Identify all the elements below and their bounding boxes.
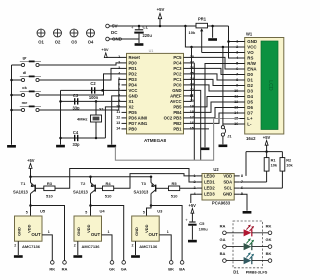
svg-text:ok: ok xyxy=(22,85,27,90)
connector RA xyxy=(62,261,68,272)
svg-text:8: 8 xyxy=(241,174,243,178)
W1 pin 14 D7 xyxy=(234,111,253,116)
W1 pin 9 D2 xyxy=(236,83,253,88)
wire MCU GND pin8 xyxy=(112,96,122,145)
svg-text:1: 1 xyxy=(48,230,50,234)
U2 pin 6 SCL xyxy=(224,186,243,191)
wire SCL row xyxy=(240,187,283,189)
svg-text:SA1013: SA1013 xyxy=(13,189,29,194)
svg-text:RA: RA xyxy=(220,223,226,228)
svg-text:10k: 10k xyxy=(286,162,293,167)
wire S1 to PD0 xyxy=(39,63,121,65)
wire S4 to PD3 xyxy=(39,79,121,110)
wire collector to U3 VDD xyxy=(147,206,152,217)
svg-text:100n: 100n xyxy=(89,95,99,100)
svg-text:R5: R5 xyxy=(172,181,178,186)
switch S4 me xyxy=(12,100,42,111)
svg-text:L+: L+ xyxy=(247,116,253,121)
U2 pin 2 LED1 xyxy=(193,180,215,185)
wire collector to GA xyxy=(91,206,124,261)
mounting hole O3 xyxy=(70,29,78,45)
svg-text:BA: BA xyxy=(220,251,226,256)
svg-text:BA: BA xyxy=(179,266,185,271)
svg-text:GA: GA xyxy=(220,237,226,242)
U1 pin 27 PC4 xyxy=(173,60,194,65)
wire PC1 to D2 xyxy=(189,79,240,85)
svg-text:AVCC: AVCC xyxy=(170,99,182,104)
wire R4 to U2 LED0 xyxy=(114,174,197,189)
svg-text:GND: GND xyxy=(76,227,81,236)
svg-text:5: 5 xyxy=(143,211,145,215)
node bus junction S3 xyxy=(10,94,13,97)
U1 pin 3 PD1 xyxy=(118,66,137,71)
U1 pin 25 PC2 xyxy=(173,71,194,76)
svg-text:U3: U3 xyxy=(157,208,163,213)
wire L+ backlight path xyxy=(115,119,239,161)
W1 pin 6 ENA xyxy=(236,67,257,72)
svg-text:PD7 AIN1: PD7 AIN1 xyxy=(129,121,148,126)
svg-text:1: 1 xyxy=(167,230,169,234)
svg-text:VCC: VCC xyxy=(129,88,138,93)
W1 pin 12 D5 xyxy=(234,100,253,105)
connector BA xyxy=(179,261,185,272)
svg-text:1: 1 xyxy=(108,230,110,234)
potentiometer PR1 10k xyxy=(189,16,208,52)
svg-text:C3: C3 xyxy=(73,93,79,98)
mounting hole O2 xyxy=(54,29,62,45)
svg-text:33p: 33p xyxy=(72,142,80,147)
ground U5 xyxy=(14,255,23,258)
wire U5 OUT to RK xyxy=(42,230,52,261)
svg-text:BK: BK xyxy=(266,251,272,256)
svg-text:PD6 AIN0: PD6 AIN0 xyxy=(129,115,148,120)
wire U5 GND pin xyxy=(14,241,18,255)
svg-text:+5V: +5V xyxy=(101,47,109,52)
svg-text:Reset: Reset xyxy=(129,55,141,60)
node rail-pot junction xyxy=(184,25,187,28)
svg-text:LED3: LED3 xyxy=(204,192,215,197)
wire L- to jumper xyxy=(222,47,224,126)
LED module D1 outline xyxy=(233,221,263,268)
U1 pin 13 PD7 AIN1 xyxy=(116,121,148,126)
svg-text:VO: VO xyxy=(247,50,254,55)
jumper J1 xyxy=(221,126,232,145)
U2 pin 8 VDD xyxy=(223,173,243,178)
wire S2 to PD1 xyxy=(39,68,121,80)
svg-text:L-: L- xyxy=(247,122,252,127)
power +5V reset xyxy=(101,47,121,57)
svg-text:PC0: PC0 xyxy=(173,82,182,87)
wire MCU GND right down xyxy=(189,90,201,160)
wire PC3 to D0 xyxy=(189,68,240,74)
svg-text:O3: O3 xyxy=(71,40,77,45)
wire X2 riser xyxy=(105,107,121,138)
svg-text:SDA: SDA xyxy=(223,180,232,185)
U2 pin 4 LED3 xyxy=(193,192,215,197)
svg-text:1: 1 xyxy=(193,174,195,178)
wire U2 GND down xyxy=(240,194,247,211)
ground U4 xyxy=(73,255,82,258)
ground pot xyxy=(208,38,217,41)
svg-text:OC2 PB3: OC2 PB3 xyxy=(164,115,183,120)
svg-text:PCA9633: PCA9633 xyxy=(212,200,231,205)
svg-text:R4: R4 xyxy=(106,181,112,186)
U1 pin 16 PB2 xyxy=(173,121,194,126)
svg-text:10k: 10k xyxy=(189,30,196,35)
power +5V bottom left xyxy=(27,158,35,177)
ground MCU xyxy=(107,145,116,148)
svg-text:LED2: LED2 xyxy=(204,186,215,191)
svg-text:GA: GA xyxy=(121,266,127,271)
svg-text:X1: X1 xyxy=(99,106,105,111)
wire R/W to ground xyxy=(205,64,240,148)
svg-text:4MHz: 4MHz xyxy=(77,116,87,121)
svg-text:dl: dl xyxy=(23,70,27,75)
svg-text:RK: RK xyxy=(49,266,55,271)
U1 pin 14 PB0 xyxy=(116,126,137,131)
svg-text:GND: GND xyxy=(134,227,139,236)
svg-text:33p: 33p xyxy=(72,106,80,111)
svg-text:PC2: PC2 xyxy=(173,71,182,76)
U1 pin 1 Reset xyxy=(118,55,140,60)
resistor R5 510 xyxy=(169,181,180,199)
svg-text:PC5: PC5 xyxy=(173,55,182,60)
svg-text:BK: BK xyxy=(168,266,174,271)
wire U2 LED3 stub xyxy=(191,194,197,203)
W1 pin 4 RS xyxy=(236,56,253,61)
svg-text:D3: D3 xyxy=(247,89,253,94)
switch S2 dl xyxy=(12,70,42,81)
svg-text:PR1: PR1 xyxy=(198,16,207,21)
svg-text:GND: GND xyxy=(129,93,138,98)
wire VDD feed xyxy=(245,152,247,176)
svg-text:U1: U1 xyxy=(149,49,154,53)
wire collector to BA xyxy=(151,206,182,261)
svg-text:GND: GND xyxy=(247,39,257,44)
capacitor C3 33p xyxy=(72,93,80,111)
svg-text:100u: 100u xyxy=(199,227,209,232)
IC W1 LCD body xyxy=(245,38,284,135)
svg-text:VDD: VDD xyxy=(223,173,232,178)
U1 pin 18 PB4 xyxy=(173,110,194,115)
ground button bus xyxy=(7,145,16,148)
svg-text:OUT: OUT xyxy=(31,232,41,237)
svg-text:D5: D5 xyxy=(247,100,253,105)
svg-text:U5: U5 xyxy=(40,208,46,213)
wire U3 OUT to BK xyxy=(159,230,171,261)
svg-text:PB2: PB2 xyxy=(173,121,182,126)
svg-text:+5V: +5V xyxy=(263,135,271,140)
svg-text:C4: C4 xyxy=(73,130,79,135)
ground U3 xyxy=(131,255,140,258)
wire rail ground stem xyxy=(212,26,214,38)
wire crystal ground left xyxy=(60,90,62,144)
U2 pin 1 LED0 xyxy=(193,173,215,178)
svg-text:+5V: +5V xyxy=(27,158,35,163)
svg-text:2: 2 xyxy=(74,243,76,247)
svg-text:220u: 220u xyxy=(143,33,153,38)
node collector U4 xyxy=(89,204,92,207)
IC U5 AMC7136 body xyxy=(15,208,46,241)
wire PB3 to D6 xyxy=(189,108,240,118)
svg-text:AMC7136: AMC7136 xyxy=(81,244,100,249)
svg-text:PD1: PD1 xyxy=(129,66,138,71)
wire AREF AVCC tie xyxy=(191,47,193,101)
svg-text:GND: GND xyxy=(17,227,22,236)
resistor R3 510 xyxy=(44,181,55,199)
U1 pin 26 PC3 xyxy=(173,66,194,71)
svg-text:5: 5 xyxy=(26,211,28,215)
svg-text:PMB8-3LFS: PMB8-3LFS xyxy=(246,269,268,274)
svg-text:AMC7136: AMC7136 xyxy=(139,244,158,249)
node VCC-AREF tap xyxy=(190,46,193,49)
wire rail to LCD pin4 and pin1 xyxy=(229,26,240,58)
ground C1 xyxy=(135,43,144,46)
U1 pin 10 X2 xyxy=(116,104,134,109)
transistor T1 SA1013 xyxy=(13,177,44,206)
wire U4 OUT to GK xyxy=(102,230,113,261)
svg-text:PD0: PD0 xyxy=(129,60,138,65)
W1 pin 7 D0 xyxy=(236,72,253,77)
svg-text:R3: R3 xyxy=(47,181,53,186)
ground J1 xyxy=(219,145,228,148)
svg-text:10k: 10k xyxy=(271,162,278,167)
svg-text:SA1013: SA1013 xyxy=(73,189,89,194)
svg-text:PD3: PD3 xyxy=(129,77,138,82)
node bus junction S4 xyxy=(10,109,13,112)
W1 pin 1 GND xyxy=(236,39,257,44)
mounting hole O1 xyxy=(37,29,45,45)
ground crystal xyxy=(56,145,65,148)
wire collector to U4 VDD xyxy=(90,206,92,217)
svg-text:PB0: PB0 xyxy=(129,126,138,131)
wire PC0 to D3 xyxy=(189,85,240,91)
U1 pin 24 PC1 xyxy=(173,77,194,82)
svg-text:T3: T3 xyxy=(141,181,146,186)
IC U3 AMC7136 body xyxy=(132,208,163,241)
svg-text:gr: gr xyxy=(23,55,27,60)
node VCC line junction xyxy=(101,89,104,92)
wire PC2 to D1 xyxy=(189,74,240,80)
U1 pin 23 PC0 xyxy=(173,82,194,87)
switch S1 gr xyxy=(12,55,42,66)
IC U4 AMC7136 body xyxy=(74,208,105,241)
svg-text:RK: RK xyxy=(266,223,272,228)
svg-text:RA: RA xyxy=(62,266,68,271)
resistor R2 10k xyxy=(280,152,294,189)
wire PC5 to ENA xyxy=(189,57,240,69)
resistor R1 10k xyxy=(264,152,278,182)
W1 pin 2 VCC xyxy=(236,45,257,50)
svg-text:OUT: OUT xyxy=(149,232,159,237)
mounting hole O4 xyxy=(87,29,95,45)
connector RK xyxy=(49,261,55,272)
LED B diode xyxy=(220,251,272,264)
svg-text:LED1: LED1 xyxy=(204,180,215,185)
wire VCC branch to LCD pin2 xyxy=(185,26,239,47)
W1 pin 5 R/W xyxy=(236,61,257,66)
svg-text:X2: X2 xyxy=(129,104,135,109)
power +5V top xyxy=(157,7,165,26)
wire X2 line xyxy=(61,137,106,139)
node collector U3 xyxy=(150,204,153,207)
wire PB1 stub xyxy=(189,128,210,130)
U1 pin 19 PB5 xyxy=(173,104,194,109)
ground C5 xyxy=(188,240,197,243)
svg-text:U2: U2 xyxy=(213,167,219,172)
wire X1 line xyxy=(61,100,122,102)
svg-text:PB5: PB5 xyxy=(173,104,182,109)
U1 pin 28 PC5 xyxy=(173,55,194,60)
wire GND input to C1 ground xyxy=(109,38,139,40)
svg-text:O1: O1 xyxy=(38,40,44,45)
svg-text:510: 510 xyxy=(171,193,178,198)
svg-text:D2: D2 xyxy=(247,83,253,88)
svg-text:U4: U4 xyxy=(100,208,106,213)
U1 pin 17 OC2 PB3 xyxy=(164,115,194,120)
U1 pin 20 AVCC xyxy=(170,99,194,104)
svg-text:ATMEGA8: ATMEGA8 xyxy=(144,138,167,143)
svg-text:PD2: PD2 xyxy=(129,71,138,76)
wire PB5 to D4 xyxy=(189,97,240,107)
svg-text:D1: D1 xyxy=(233,269,239,274)
svg-text:O4: O4 xyxy=(88,40,94,45)
U2 pin 5 GND xyxy=(223,192,243,197)
capacitor C2 100n xyxy=(89,81,99,100)
wire PB4 to D5 xyxy=(189,102,240,112)
connector GND input terminal xyxy=(106,36,123,41)
U1 pin 12 PD6 AIN0 xyxy=(116,115,148,120)
W1 pin 8 D1 xyxy=(236,78,253,83)
svg-text:LED0: LED0 xyxy=(204,173,215,178)
power +5V C5 xyxy=(188,203,196,222)
svg-text:OUT: OUT xyxy=(91,232,101,237)
W1 pin 16 L- xyxy=(234,122,252,127)
wire 5V rail top xyxy=(109,25,228,27)
U1 pin 6 PD4 xyxy=(118,82,137,87)
wire SDA row xyxy=(240,181,267,183)
capacitor C1 220u xyxy=(131,25,152,43)
W1 pin 10 D3 xyxy=(234,89,253,94)
svg-text:C1: C1 xyxy=(143,25,149,30)
svg-text:+5V: +5V xyxy=(157,7,165,12)
wire R3 to U2 LED1 xyxy=(55,169,197,189)
svg-text:D7: D7 xyxy=(247,111,253,116)
svg-text:2: 2 xyxy=(132,243,134,247)
U1 pin 5 PD3 xyxy=(118,77,137,82)
wire collector to U5 VDD xyxy=(30,206,32,217)
svg-text:D1: D1 xyxy=(247,78,253,83)
wire PB2 to D7 xyxy=(189,113,240,123)
wire +5V bottom rail xyxy=(31,176,152,178)
LED R diode xyxy=(220,223,272,236)
wire U3 GND pin xyxy=(132,241,136,255)
switch S3 ok xyxy=(12,85,42,96)
U2 pin 7 SDA xyxy=(223,180,243,185)
W1 pin 15 L+ xyxy=(234,116,253,121)
capacitor C5 100u xyxy=(185,217,208,239)
wire U4 GND pin xyxy=(74,241,78,255)
svg-text:16x2: 16x2 xyxy=(246,136,256,141)
svg-text:GK: GK xyxy=(266,237,272,242)
node bus junction S2 xyxy=(10,79,13,82)
IC U2 PCA9633 body xyxy=(202,174,234,201)
wire PC4 down xyxy=(189,62,195,64)
svg-text:510: 510 xyxy=(46,193,53,198)
svg-text:GND: GND xyxy=(172,88,181,93)
svg-text:DC: DC xyxy=(111,30,118,35)
svg-text:12: 12 xyxy=(116,116,120,120)
svg-text:C5: C5 xyxy=(199,221,205,226)
wire R5 to U2 LED2 xyxy=(180,187,197,189)
connector GK xyxy=(109,261,115,272)
U1 pin 15 PB1 xyxy=(173,126,194,131)
wire collector to RA xyxy=(31,206,65,261)
node crystal top xyxy=(95,100,98,103)
svg-text:me: me xyxy=(22,100,29,105)
svg-text:2: 2 xyxy=(14,243,16,247)
svg-text:PC4: PC4 xyxy=(173,60,182,65)
svg-text:D0: D0 xyxy=(247,72,253,77)
svg-text:PB1: PB1 xyxy=(173,126,182,131)
svg-text:PD5: PD5 xyxy=(129,110,138,115)
node collector U5 xyxy=(29,204,32,207)
U1 pin 22 GND xyxy=(172,88,194,93)
transistor T2 SA1013 xyxy=(73,176,103,206)
svg-text:X1: X1 xyxy=(129,99,135,104)
svg-text:T1: T1 xyxy=(21,181,26,186)
svg-text:PC1: PC1 xyxy=(173,77,182,82)
wire left button bus xyxy=(11,65,13,145)
U1 pin 2 PD0 xyxy=(118,60,137,65)
LED G diode xyxy=(220,237,272,250)
svg-text:VCC: VCC xyxy=(247,45,257,50)
svg-text:3: 3 xyxy=(236,50,238,54)
W1 pin 3 VO xyxy=(236,50,254,55)
U1 pin 7 VCC xyxy=(118,88,137,93)
svg-text:+: + xyxy=(131,25,134,30)
connector 5V input terminal xyxy=(106,23,118,28)
U1 pin 8 GND xyxy=(118,93,138,98)
svg-text:11: 11 xyxy=(116,110,120,114)
node crystal bottom xyxy=(95,137,98,140)
svg-text:GK: GK xyxy=(109,266,115,271)
svg-text:AMC7136: AMC7136 xyxy=(22,244,41,249)
svg-text:C2: C2 xyxy=(90,81,96,86)
svg-text:W1: W1 xyxy=(246,32,253,37)
svg-text:2: 2 xyxy=(236,45,238,49)
svg-text:O2: O2 xyxy=(55,40,61,45)
svg-text:13: 13 xyxy=(116,121,120,125)
svg-text:D4: D4 xyxy=(247,94,253,99)
svg-text:SA1013: SA1013 xyxy=(134,189,150,194)
svg-text:+5V: +5V xyxy=(188,203,196,208)
wire LCD pin1 GND stub xyxy=(229,41,240,43)
wire VO wiper to LCD pin3 xyxy=(202,52,240,54)
svg-text:1: 1 xyxy=(236,39,238,43)
W1 pin 13 D6 xyxy=(234,105,253,110)
svg-text:T2: T2 xyxy=(81,181,86,186)
svg-text:5: 5 xyxy=(85,211,87,215)
svg-text:AREF: AREF xyxy=(170,93,182,98)
svg-text:RS: RS xyxy=(247,56,253,61)
svg-text:PD4: PD4 xyxy=(129,82,138,87)
connector BK xyxy=(168,261,174,272)
connector GA xyxy=(121,261,127,272)
ground R/W xyxy=(201,148,210,151)
svg-text:R/W: R/W xyxy=(247,61,256,66)
svg-text:3: 3 xyxy=(193,186,195,190)
